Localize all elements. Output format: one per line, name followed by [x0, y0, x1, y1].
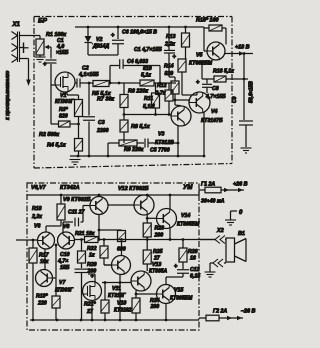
svg-text:С2: С2: [82, 66, 89, 72]
svg-text:V8: V8: [63, 224, 69, 230]
svg-text:V9 КТ602Б: V9 КТ602Б: [63, 197, 91, 203]
svg-text:КТ805БМ: КТ805БМ: [177, 222, 200, 228]
svg-text:V6,V7: V6,V7: [31, 185, 47, 191]
svg-text:200: 200: [150, 304, 160, 310]
svg-text:С1 4,7×15Б: С1 4,7×15Б: [134, 47, 162, 53]
svg-text:+: +: [111, 33, 115, 39]
svg-text:R3*: R3*: [59, 107, 69, 113]
svg-text:КТ315Г: КТ315Г: [108, 293, 127, 299]
svg-text:R23: R23: [155, 226, 165, 232]
svg-text:R20: R20: [87, 262, 97, 268]
svg-text:–26 В: –26 В: [241, 309, 255, 315]
svg-text:R21*: R21*: [84, 302, 97, 308]
svg-text:2,2к: 2,2к: [31, 214, 42, 220]
svg-text:820: 820: [165, 71, 174, 77]
svg-text:4,7×15Б: 4,7×15Б: [205, 94, 226, 100]
svg-text:15Б: 15Б: [60, 265, 70, 271]
svg-text:КТ3102: КТ3102: [114, 308, 132, 314]
svg-text:V12 КТ602Б: V12 КТ602Б: [118, 186, 149, 192]
svg-text:Г1 2А: Г1 2А: [201, 182, 215, 188]
svg-text:КП303Г: КП303Г: [55, 288, 74, 294]
svg-text:R15* 160: R15* 160: [196, 18, 218, 24]
svg-text:КП303Г: КП303Г: [55, 99, 75, 105]
svg-text:к проигрывателю: к проигрывателю: [5, 70, 11, 120]
svg-text:V5: V5: [196, 53, 202, 59]
svg-text:200: 200: [154, 233, 164, 239]
svg-text:V7: V7: [59, 280, 66, 286]
svg-text:Х2: Х2: [216, 228, 224, 234]
svg-text:R22: R22: [87, 246, 97, 252]
svg-text:5,1М: 5,1М: [143, 104, 155, 110]
svg-text:R14: R14: [164, 64, 174, 70]
svg-text:R2 560к: R2 560к: [39, 132, 59, 138]
svg-text:+18 В: +18 В: [235, 45, 250, 51]
svg-text:R26: R26: [188, 249, 198, 255]
svg-text:×15Б: ×15Б: [56, 50, 69, 56]
svg-text:С6 100,0×15 В: С6 100,0×15 В: [122, 30, 157, 36]
svg-text:Д814Д: Д814Д: [92, 44, 109, 50]
svg-text:+26 В: +26 В: [233, 182, 248, 188]
svg-text:R16 5,1к: R16 5,1к: [213, 69, 234, 75]
svg-text:R18: R18: [32, 206, 42, 212]
svg-text:+: +: [43, 62, 47, 68]
svg-text:16: 16: [190, 256, 196, 262]
svg-text:С9: С9: [232, 96, 238, 103]
svg-text:V11: V11: [112, 286, 121, 292]
svg-text:R21 10к: R21 10к: [75, 231, 95, 237]
svg-text:1к: 1к: [89, 253, 95, 259]
svg-text:V3: V3: [158, 132, 164, 138]
svg-text:КТ602БМ: КТ602БМ: [189, 61, 213, 67]
svg-text:С5 7700: С5 7700: [150, 148, 170, 154]
svg-text:R19*: R19*: [36, 294, 49, 300]
svg-text:R17: R17: [39, 253, 50, 259]
svg-text:27: 27: [153, 256, 161, 262]
svg-text:КТ805БМ: КТ805БМ: [170, 296, 193, 302]
svg-text:С12: С12: [190, 267, 200, 273]
svg-text:R8 5,1к: R8 5,1к: [131, 124, 150, 130]
svg-text:V15: V15: [174, 288, 183, 294]
svg-text:УМ: УМ: [183, 184, 193, 191]
svg-text:С10: С10: [60, 252, 70, 258]
svg-text:КТ805А: КТ805А: [149, 269, 168, 275]
svg-text:С4 0,033: С4 0,033: [127, 59, 148, 65]
svg-text:30÷40 мА: 30÷40 мА: [201, 199, 225, 205]
svg-text:50,0×15В: 50,0×15В: [249, 81, 255, 103]
svg-text:27: 27: [86, 309, 94, 315]
svg-text:2,7к: 2,7к: [155, 91, 166, 97]
svg-text:R12: R12: [157, 83, 167, 89]
svg-text:С3: С3: [98, 120, 105, 126]
svg-text:V14: V14: [181, 213, 190, 219]
svg-text:R9 220к: R9 220к: [124, 147, 144, 153]
svg-text:V13: V13: [152, 262, 161, 268]
svg-text:+: +: [91, 274, 95, 280]
svg-text:R7 39к: R7 39к: [97, 97, 114, 103]
svg-text:Х1: Х1: [12, 22, 21, 28]
svg-text:С11 27: С11 27: [68, 210, 85, 216]
svg-text:5,1к: 5,1к: [141, 73, 151, 79]
svg-text:V2: V2: [96, 37, 102, 43]
svg-text:БР: БР: [38, 18, 48, 25]
svg-text:V10: V10: [117, 301, 126, 307]
svg-text:+: +: [173, 55, 177, 61]
svg-text:4,1×15Б: 4,1×15Б: [78, 72, 99, 78]
svg-text:R13: R13: [166, 34, 176, 40]
svg-text:+: +: [196, 80, 200, 86]
svg-text:4,7×: 4,7×: [57, 259, 68, 265]
svg-text:Г2 2А: Г2 2А: [213, 309, 227, 315]
svg-text:+: +: [174, 264, 178, 270]
svg-text:2200: 2200: [96, 128, 109, 134]
svg-text:R11: R11: [144, 96, 153, 102]
svg-text:R25: R25: [153, 249, 163, 255]
svg-text:С8: С8: [212, 86, 219, 92]
svg-text:КТ342А: КТ342А: [60, 185, 80, 191]
svg-text:R6 220к: R6 220к: [128, 89, 148, 95]
svg-text:В1: В1: [238, 231, 245, 237]
svg-text:820: 820: [59, 114, 68, 120]
svg-text:V6: V6: [34, 224, 40, 230]
svg-text:V4: V4: [211, 109, 217, 115]
svg-text:0,15: 0,15: [190, 274, 200, 280]
svg-text:R4 5,1к: R4 5,1к: [47, 143, 66, 149]
svg-text:220: 220: [37, 301, 47, 307]
svg-text:510: 510: [143, 66, 152, 72]
